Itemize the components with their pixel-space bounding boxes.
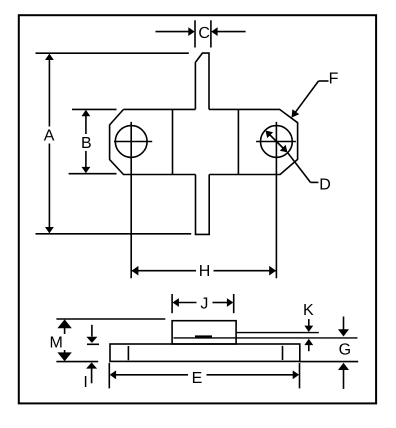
dimension H (hole spacing)	[131, 263, 276, 280]
dimension K (lead thickness)	[303, 302, 314, 351]
svg-text:G: G	[339, 342, 351, 359]
top lead tab	[195, 53, 209, 109]
svg-text:F: F	[329, 70, 339, 87]
lead cross-section dash	[195, 335, 212, 338]
svg-text:J: J	[200, 296, 208, 313]
center body section lines	[173, 109, 239, 174]
lead top line	[236, 332, 319, 334]
svg-text:E: E	[192, 370, 203, 387]
dimension J (cap width)	[172, 294, 234, 313]
svg-text:B: B	[81, 135, 92, 152]
svg-text:H: H	[199, 263, 211, 280]
leader D (hole diameter callout)	[266, 131, 331, 194]
svg-text:M: M	[50, 335, 63, 352]
svg-text:I: I	[83, 374, 87, 391]
leader F (chamfer callout)	[292, 70, 339, 117]
dimension C (tab width)	[156, 20, 246, 47]
flange outline (top view)	[110, 109, 298, 174]
lead bottom line	[174, 337, 358, 339]
dimension M (overall height)	[50, 319, 166, 362]
cap (side view)	[172, 321, 236, 344]
svg-text:D: D	[319, 176, 331, 193]
dimension I (flange thickness)	[83, 325, 99, 391]
svg-text:K: K	[303, 302, 314, 319]
dimension E (flange length)	[109, 363, 299, 389]
svg-text:A: A	[44, 128, 55, 145]
flange end tick right	[282, 346, 284, 360]
flange bar (side view)	[110, 344, 300, 361]
svg-text:C: C	[198, 25, 210, 42]
dimension B (flange width)	[69, 109, 117, 173]
dimension A (overall length)	[36, 53, 192, 234]
left mounting hole	[114, 122, 152, 278]
bottom lead tab	[196, 175, 210, 235]
right mounting hole	[256, 122, 296, 278]
dimension G (lead height above seating)	[300, 317, 358, 389]
flange end tick left	[127, 346, 129, 360]
